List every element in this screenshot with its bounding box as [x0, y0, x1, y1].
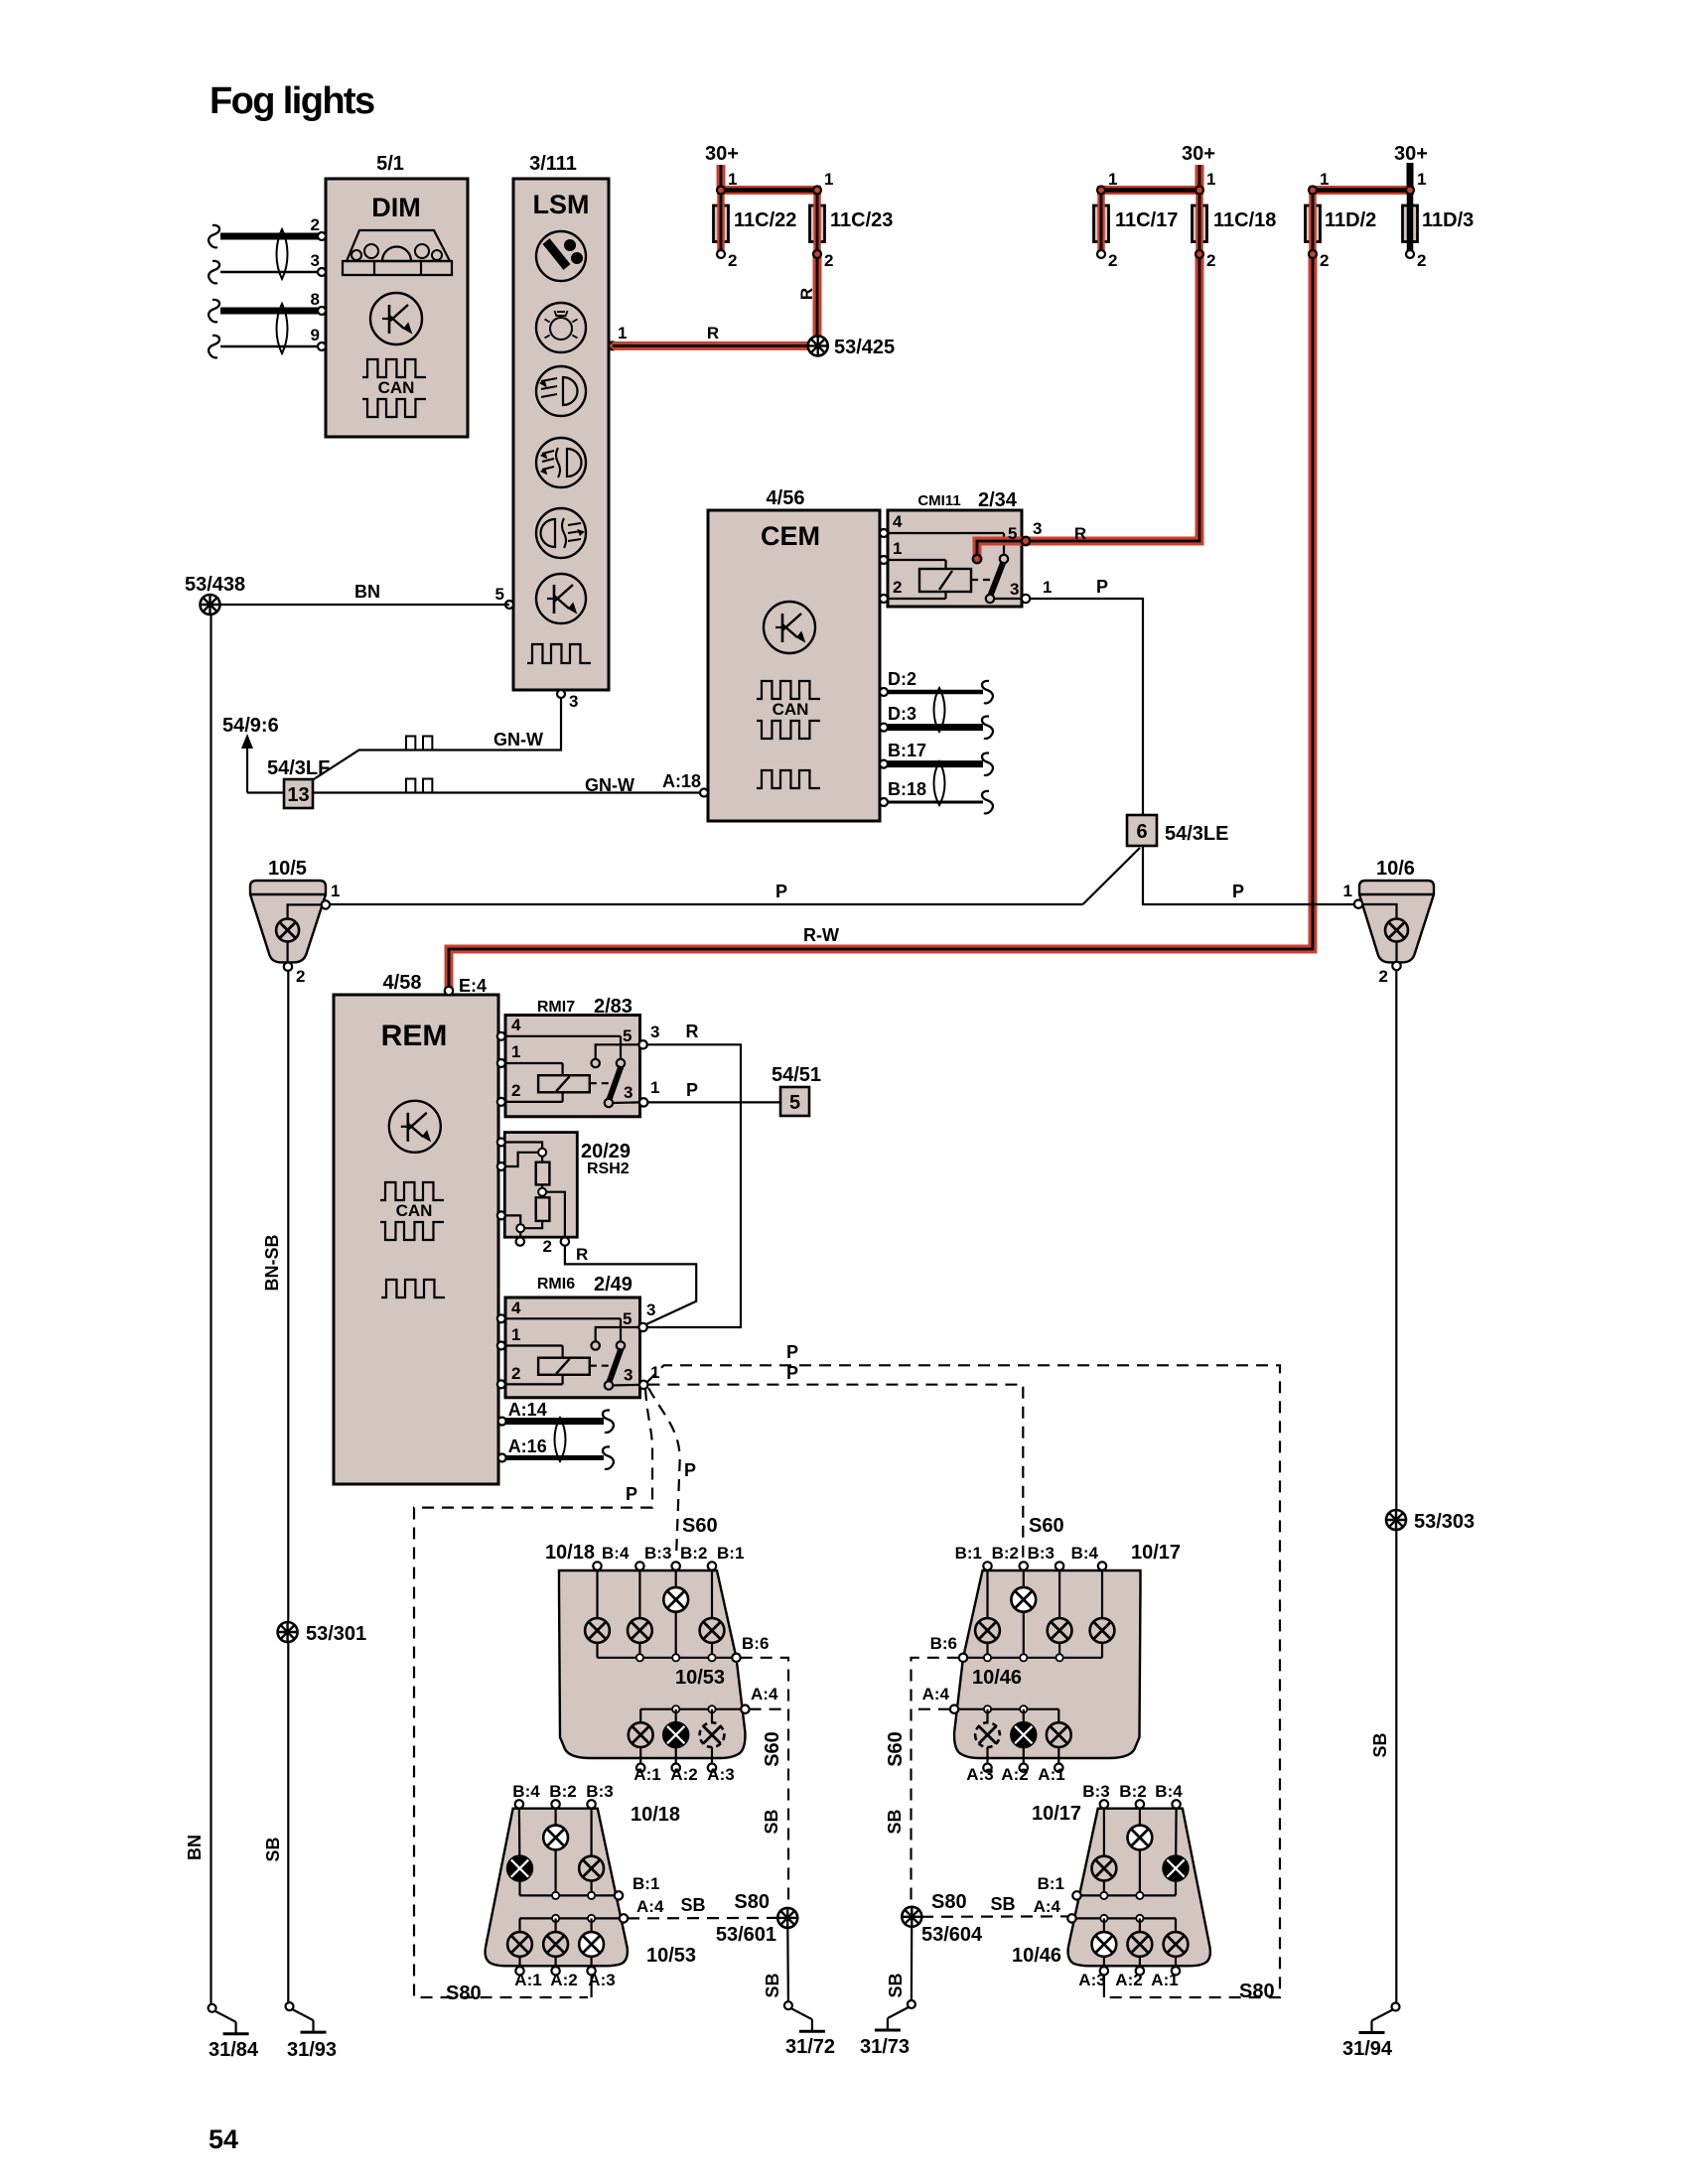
svg-text:11D/3: 11D/3 — [1422, 209, 1474, 231]
fuse 11C/23 — [810, 205, 825, 242]
svg-text:S80: S80 — [931, 1891, 967, 1913]
wire SB splice 53/604 to ground 31/73 — [911, 1926, 913, 2000]
relay 2/49 RMI6 — [497, 1274, 640, 1398]
svg-text:10/6: 10/6 — [1376, 858, 1415, 880]
svg-text:10/5: 10/5 — [268, 858, 307, 880]
relay 2/34 CMI11 — [880, 489, 1026, 607]
wire DIM pin 9 (twisted) — [220, 345, 318, 347]
cluster 10/18 S80 pin A:2 — [551, 1967, 559, 1975]
cluster 10/18 S60 pin B:1 — [708, 1562, 716, 1570]
splice 53/604 — [902, 1907, 921, 1927]
svg-text:B:3: B:3 — [644, 1544, 671, 1563]
twisted pair symbol D:2-D:3 — [934, 688, 945, 732]
relay 2/83 RMI7 — [497, 996, 640, 1117]
REM pin E:4 — [445, 987, 453, 995]
wire P 54/3LE to lamp 10/6 — [1143, 846, 1353, 904]
svg-text:SB: SB — [763, 1973, 782, 1997]
svg-text:CAN: CAN — [773, 700, 809, 719]
svg-text:B:17: B:17 — [888, 741, 926, 760]
RSH2 pins on REM edge — [497, 1139, 505, 1147]
svg-text:B:3: B:3 — [1028, 1544, 1055, 1563]
svg-text:B:4: B:4 — [512, 1782, 540, 1801]
wire DIM pin 2 (twisted) — [220, 233, 318, 240]
svg-text:S60: S60 — [1029, 1515, 1064, 1537]
cluster 10/18 S80 pin B:1 — [615, 1891, 623, 1899]
svg-text:1: 1 — [824, 170, 833, 189]
svg-text:8: 8 — [311, 290, 320, 309]
svg-text:4/56: 4/56 — [767, 487, 805, 509]
svg-text:S80: S80 — [1239, 1980, 1275, 2002]
svg-text:RMI6: RMI6 — [537, 1276, 575, 1293]
svg-text:1: 1 — [331, 882, 340, 900]
svg-text:5: 5 — [623, 1309, 632, 1328]
svg-text:5: 5 — [789, 1092, 800, 1114]
svg-text:SB: SB — [886, 1973, 906, 1997]
resistor module 20/29 RSH2 — [504, 1133, 631, 1238]
RSH2 pin 2 — [561, 1237, 569, 1245]
svg-text:4/58: 4/58 — [383, 972, 422, 994]
svg-text:11C/18: 11C/18 — [1213, 209, 1276, 231]
cluster 10/18 S60 pin A:2 — [672, 1764, 680, 1772]
svg-text:4: 4 — [511, 1016, 521, 1034]
svg-text:11C/22: 11C/22 — [734, 209, 796, 231]
arrow to 54/9:6 — [247, 791, 284, 793]
svg-text:11D/2: 11D/2 — [1325, 209, 1376, 231]
svg-text:2: 2 — [1206, 251, 1215, 270]
svg-text:2: 2 — [1320, 251, 1329, 270]
wire fuse link 11C/17-11C/18 pin1 — [1097, 186, 1203, 195]
svg-text:A:4: A:4 — [1034, 1897, 1061, 1916]
relay 2/49 pin 1 (bottom) — [639, 1381, 647, 1389]
svg-text:A:14: A:14 — [508, 1400, 547, 1420]
svg-text:P: P — [626, 1484, 637, 1504]
svg-text:3: 3 — [624, 1083, 633, 1102]
svg-text:10/46: 10/46 — [1012, 1945, 1061, 1967]
svg-text:B:2: B:2 — [680, 1544, 707, 1563]
fuse 11D/3 — [1403, 205, 1418, 242]
wire R splice 53/425 to LSM pin 1 — [613, 341, 817, 350]
svg-text:B:2: B:2 — [549, 1782, 576, 1801]
wire R RSH2 pin 2 to relay 2/49 pin 3 — [565, 1246, 696, 1324]
relay 2/34 pin 3 (top) — [1022, 537, 1030, 545]
svg-text:54: 54 — [209, 2124, 238, 2154]
lamp cluster 10/18 10/53 (S80) — [486, 1809, 628, 1967]
svg-text:R: R — [1074, 524, 1086, 543]
svg-text:DIM: DIM — [371, 193, 421, 222]
svg-text:A:2: A:2 — [1115, 1971, 1142, 1989]
CEM pin B:17 wire — [880, 760, 888, 768]
REM pin A:14 wire — [498, 1418, 506, 1426]
twisted pair symbol A:14-A:16 — [555, 1418, 566, 1461]
svg-text:SB: SB — [762, 1809, 781, 1834]
svg-text:10/53: 10/53 — [646, 1945, 696, 1967]
svg-text:10/17: 10/17 — [1032, 1803, 1081, 1825]
lamp 10/6 pin 1 — [1354, 900, 1362, 908]
wire SB lamp 10/6 pin 2 down to ground 31/94 — [1395, 970, 1397, 2003]
cluster 10/18 S60 pin A:4 — [741, 1706, 749, 1713]
wire SB splice 53/601 to ground 31/72 — [786, 1928, 789, 2002]
svg-text:10/53: 10/53 — [675, 1667, 725, 1689]
svg-text:53/438: 53/438 — [185, 574, 245, 596]
dashed wire P (S80 right) from relay 2/49 — [647, 1365, 1280, 1997]
svg-text:B:2: B:2 — [992, 1544, 1019, 1563]
svg-text:1: 1 — [511, 1042, 520, 1061]
lamp 10/6 — [1359, 881, 1434, 962]
svg-text:B:18: B:18 — [888, 779, 926, 799]
svg-text:GN-W: GN-W — [585, 775, 634, 795]
svg-text:2: 2 — [893, 578, 902, 597]
svg-text:1: 1 — [1343, 882, 1352, 900]
wire GN-W to CEM A:18 — [313, 791, 700, 793]
svg-text:SB: SB — [1370, 1732, 1390, 1757]
twisted pair symbol pins 8-9 — [277, 304, 288, 353]
wire R relay 2/83 to relay 2/49 pin 3 — [646, 1044, 741, 1327]
svg-text:B:1: B:1 — [717, 1544, 744, 1563]
svg-text:1: 1 — [1043, 578, 1052, 597]
svg-text:SB: SB — [263, 1837, 283, 1861]
dashed wire SB splice 53/604 to cluster 10/17 S80 A:4 — [921, 1915, 1072, 1918]
svg-text:B:1: B:1 — [955, 1544, 982, 1563]
dashed wire SB B:6/A:4 rail (right S60) — [912, 1658, 959, 1907]
svg-text:53/301: 53/301 — [306, 1623, 366, 1645]
ground 31/94 — [1392, 2003, 1400, 2011]
wire GN-W LSM pin 3 — [313, 698, 561, 780]
svg-text:30+: 30+ — [705, 143, 739, 165]
splice 53/303 — [1386, 1510, 1406, 1530]
cluster 10/18 S60 pin B:6 — [732, 1654, 740, 1662]
fuse 11D/2 — [1306, 205, 1321, 242]
svg-text:6: 6 — [1136, 821, 1147, 843]
DIM pin 9 — [318, 342, 326, 350]
cluster 10/18 S60 pin A:3 — [708, 1764, 716, 1772]
connector 54/51 pin 5 — [780, 1087, 809, 1116]
cluster 10/18 S60 pin A:1 — [636, 1764, 644, 1772]
svg-text:A:1: A:1 — [1038, 1765, 1064, 1784]
svg-text:P: P — [786, 1342, 798, 1362]
svg-text:4: 4 — [893, 512, 903, 531]
splice 53/601 — [777, 1908, 797, 1928]
svg-text:3: 3 — [624, 1366, 633, 1385]
CEM pin D:3 wire — [880, 724, 888, 732]
svg-text:R: R — [686, 1022, 699, 1041]
wire R fuse 11C/23 to splice 53/425 — [813, 254, 822, 345]
svg-text:1: 1 — [1417, 170, 1426, 189]
svg-text:A:1: A:1 — [1151, 1971, 1178, 1989]
wire P relay 2/34 to connector 54/3LE — [1030, 599, 1143, 815]
svg-text:2: 2 — [1417, 251, 1426, 270]
svg-text:S80: S80 — [446, 1982, 482, 2004]
svg-text:30+: 30+ — [1394, 143, 1428, 165]
wire R-W fuse 11D/2 to REM E:4 — [449, 254, 1313, 993]
svg-text:2: 2 — [511, 1364, 520, 1383]
svg-text:RMI7: RMI7 — [537, 999, 575, 1016]
svg-text:2/83: 2/83 — [594, 996, 633, 1018]
svg-text:53/425: 53/425 — [834, 337, 895, 358]
svg-text:S60: S60 — [885, 1731, 907, 1767]
wire fuse link 11D/2-11D/3 pin1 — [1309, 186, 1414, 195]
lamp cluster 10/18 10/53 (S60) — [559, 1570, 745, 1764]
cluster 10/18 S60 pin B:4 — [593, 1562, 601, 1570]
fuse 11C/18 — [1193, 205, 1207, 242]
svg-text:2: 2 — [1108, 251, 1117, 270]
DIM pin 8 — [318, 307, 326, 315]
twisted pair symbol pins 2-3 — [277, 229, 288, 279]
svg-text:A:4: A:4 — [636, 1897, 664, 1916]
svg-text:2: 2 — [728, 251, 737, 270]
svg-text:SB: SB — [680, 1895, 705, 1915]
wire cluster 10/18 S80 A:3 to S80 rail — [590, 1976, 592, 1998]
svg-text:A:1: A:1 — [514, 1971, 541, 1989]
svg-text:A:1: A:1 — [633, 1765, 660, 1784]
twisted pair symbol B:17-B:18 — [934, 761, 945, 805]
splice 53/425 — [808, 336, 828, 355]
svg-text:31/73: 31/73 — [860, 2036, 910, 2058]
REM pin A:16 wire — [498, 1454, 506, 1462]
svg-text:P: P — [775, 882, 787, 901]
svg-text:30+: 30+ — [1182, 143, 1215, 165]
svg-text:54/9:6: 54/9:6 — [222, 715, 279, 737]
svg-text:31/93: 31/93 — [287, 2039, 337, 2061]
ground 31/84 — [209, 2004, 216, 2012]
svg-text:D:2: D:2 — [888, 669, 916, 689]
svg-text:SB: SB — [990, 1894, 1015, 1914]
svg-text:2/49: 2/49 — [594, 1274, 633, 1296]
svg-text:3: 3 — [311, 251, 320, 270]
svg-text:B:2: B:2 — [1119, 1782, 1146, 1801]
svg-text:A:3: A:3 — [707, 1765, 734, 1784]
CEM pin D:2 wire — [880, 688, 888, 696]
svg-text:R: R — [576, 1245, 588, 1264]
connector 54/3LF pin 13 — [284, 779, 313, 808]
module REM 4/58 — [334, 972, 498, 1484]
svg-text:E:4: E:4 — [459, 976, 487, 996]
svg-text:5: 5 — [495, 585, 504, 604]
svg-text:31/72: 31/72 — [785, 2036, 835, 2058]
dashed wire P (S60 left) from relay 2/49 — [648, 1388, 680, 1558]
svg-text:R-W: R-W — [803, 925, 839, 945]
wire P relay 2/83 to connector 54/51 — [647, 1101, 780, 1103]
svg-text:P: P — [1232, 882, 1244, 901]
svg-text:1: 1 — [1108, 170, 1117, 189]
svg-text:2: 2 — [311, 215, 320, 234]
relay 2/49 pin 3 (top) — [638, 1323, 646, 1331]
svg-text:54/51: 54/51 — [772, 1064, 821, 1086]
wire R fuse 11C/18 to relay 2/34 — [1029, 254, 1199, 541]
svg-text:LSM: LSM — [533, 190, 590, 219]
svg-text:S60: S60 — [682, 1515, 718, 1537]
lamp 10/5 pin 2 — [284, 963, 292, 971]
svg-text:P: P — [686, 1080, 698, 1100]
lamp cluster 10/17 10/46 (S80) — [1067, 1800, 1210, 1997]
svg-text:A:4: A:4 — [751, 1685, 778, 1704]
wire DIM pin 3 (twisted) — [220, 271, 318, 273]
svg-text:S80: S80 — [734, 1891, 770, 1913]
svg-text:31/94: 31/94 — [1342, 2038, 1393, 2060]
svg-text:SB: SB — [885, 1809, 905, 1834]
svg-text:RSH2: RSH2 — [587, 1160, 630, 1177]
cluster 10/18 S80 pin A:4 — [620, 1914, 628, 1922]
svg-text:B:4: B:4 — [1155, 1782, 1183, 1801]
svg-text:3: 3 — [650, 1023, 659, 1041]
svg-text:1: 1 — [650, 1363, 659, 1382]
wire BN down from 53/438 to ground 31/84 — [210, 614, 211, 2004]
wire DIM pin 8 (twisted) — [220, 308, 318, 315]
lamp 10/5 pin 1 — [322, 900, 330, 908]
svg-text:53/601: 53/601 — [716, 1924, 776, 1946]
svg-text:B:6: B:6 — [930, 1634, 957, 1653]
svg-text:2/34: 2/34 — [978, 489, 1018, 511]
wire BN splice 53/438 to LSM pin 5 — [211, 604, 510, 606]
cluster 10/18 S80 pin A:1 — [515, 1967, 523, 1975]
svg-text:B:1: B:1 — [1038, 1874, 1064, 1893]
cluster 10/18 S80 pin B:2 — [551, 1800, 559, 1808]
wire BN-SB lamp 10/5 pin 2 down — [287, 971, 289, 2002]
svg-text:D:3: D:3 — [888, 704, 916, 724]
svg-text:1: 1 — [1206, 170, 1215, 189]
dashed wire P (S60 right) from relay 2/49 — [647, 1385, 1023, 1558]
svg-text:B:6: B:6 — [742, 1634, 769, 1653]
DIM pin 3 — [318, 268, 326, 276]
DIM pin 2 — [318, 232, 326, 240]
svg-text:53/303: 53/303 — [1414, 1511, 1475, 1533]
svg-text:R: R — [797, 288, 816, 300]
splice 53/438 — [201, 595, 220, 614]
svg-text:A:3: A:3 — [1078, 1971, 1105, 1989]
svg-text:54/3LF: 54/3LF — [267, 757, 330, 779]
svg-text:B:4: B:4 — [602, 1544, 630, 1563]
svg-text:B:3: B:3 — [586, 1782, 613, 1801]
svg-text:2: 2 — [1379, 967, 1388, 986]
svg-text:Fog lights: Fog lights — [210, 80, 374, 122]
svg-text:5: 5 — [623, 1026, 632, 1045]
module LSM 3/111 — [513, 153, 609, 690]
dashed wire P (S80 left) from relay 2/49 — [414, 1389, 652, 1997]
svg-text:3: 3 — [646, 1300, 655, 1319]
svg-text:31/84: 31/84 — [209, 2039, 259, 2061]
svg-text:54/3LE: 54/3LE — [1165, 823, 1228, 845]
svg-text:A:18: A:18 — [662, 771, 701, 791]
svg-text:1: 1 — [893, 539, 902, 558]
svg-text:R: R — [707, 324, 719, 342]
cluster 10/18 S80 pin B:4 — [515, 1800, 523, 1808]
cluster 10/18 S80 pin A:3 — [587, 1967, 595, 1975]
CEM pin A:18 — [700, 789, 708, 797]
svg-text:P: P — [786, 1363, 798, 1383]
svg-text:4: 4 — [511, 1298, 521, 1317]
svg-text:GN-W: GN-W — [493, 730, 543, 750]
svg-text:CMI11: CMI11 — [917, 492, 960, 509]
dashed wire SB B:6/A:4 rail (left S60) — [741, 1658, 788, 1909]
svg-text:B:3: B:3 — [1082, 1782, 1109, 1801]
svg-text:1: 1 — [1320, 170, 1329, 189]
relay 2/83 pin 3 (top) — [638, 1040, 646, 1048]
cluster 10/18 S60 pin B:3 — [635, 1562, 643, 1570]
RSH2 bottom pin (nc) — [516, 1237, 524, 1245]
wire fuse link 11C/22-11C/23 pin1 — [717, 186, 821, 195]
fuse 11C/22 — [714, 205, 729, 242]
svg-text:10/18: 10/18 — [545, 1542, 595, 1564]
svg-text:1: 1 — [650, 1078, 659, 1097]
relay 2/83 pin 1 (bottom) — [639, 1098, 647, 1106]
svg-text:3: 3 — [1010, 580, 1019, 599]
svg-text:13: 13 — [287, 784, 309, 806]
svg-text:3: 3 — [569, 692, 578, 711]
svg-text:A:16: A:16 — [508, 1436, 547, 1456]
svg-text:BN: BN — [185, 1835, 205, 1860]
wire P 54/3LE branch to lamp 10/5 — [1083, 848, 1141, 904]
svg-text:1: 1 — [618, 324, 627, 342]
connector 54/3LE pin 6 — [1127, 815, 1157, 846]
svg-text:10/18: 10/18 — [631, 1804, 680, 1826]
lamp cluster 10/17 10/46 (S60) — [950, 1562, 1141, 1772]
svg-text:CAN: CAN — [396, 1201, 433, 1220]
module CEM 4/56 — [708, 487, 880, 821]
svg-text:A:3: A:3 — [966, 1765, 993, 1784]
splice 53/301 — [278, 1622, 298, 1642]
svg-text:20/29: 20/29 — [581, 1141, 631, 1162]
svg-text:9: 9 — [311, 326, 320, 344]
svg-text:2: 2 — [824, 251, 833, 270]
svg-text:B:1: B:1 — [633, 1874, 659, 1893]
svg-text:1: 1 — [511, 1325, 520, 1344]
svg-text:P: P — [684, 1460, 696, 1480]
svg-text:2: 2 — [296, 967, 305, 986]
svg-text:A:2: A:2 — [550, 1971, 577, 1989]
svg-text:A:2: A:2 — [1001, 1765, 1028, 1784]
svg-text:5/1: 5/1 — [376, 153, 404, 175]
ground 31/93 — [286, 2002, 294, 2010]
svg-text:2: 2 — [511, 1081, 520, 1100]
CEM pin B:18 wire — [880, 798, 888, 806]
module DIM 5/1 — [326, 153, 468, 437]
lamp 10/5 — [250, 881, 326, 962]
svg-text:B:4: B:4 — [1071, 1544, 1099, 1563]
svg-text:10/46: 10/46 — [972, 1667, 1022, 1689]
svg-text:CAN: CAN — [378, 378, 415, 397]
svg-text:P: P — [1096, 577, 1108, 597]
svg-text:11C/23: 11C/23 — [830, 209, 893, 231]
dashed wire SB cluster 10/18 S80 A:4 to splice 53/601 — [628, 1917, 777, 1920]
svg-text:2: 2 — [543, 1237, 552, 1256]
ground 31/72 — [784, 2001, 792, 2009]
relay 2/34 pin 1 (bottom) — [1022, 595, 1030, 603]
svg-text:A:2: A:2 — [670, 1765, 697, 1784]
LSM pin 1 — [609, 341, 617, 349]
svg-text:REM: REM — [381, 1020, 448, 1052]
svg-text:BN: BN — [354, 582, 380, 602]
LSM pin 5 — [505, 601, 513, 609]
svg-text:S60: S60 — [762, 1731, 783, 1767]
svg-text:5: 5 — [1008, 524, 1017, 543]
svg-text:3: 3 — [1033, 519, 1042, 538]
cluster 10/18 S60 pin B:2 — [672, 1562, 680, 1570]
svg-text:BN-SB: BN-SB — [262, 1235, 282, 1292]
svg-text:53/604: 53/604 — [921, 1924, 983, 1946]
fuse 11C/17 — [1094, 205, 1109, 242]
svg-text:1: 1 — [728, 170, 737, 189]
svg-text:CEM: CEM — [761, 521, 820, 551]
lamp 10/6 pin 2 — [1392, 962, 1400, 970]
svg-text:A:4: A:4 — [922, 1685, 950, 1704]
LSM pin 3 — [557, 690, 565, 698]
svg-text:3/111: 3/111 — [529, 153, 577, 175]
cluster 10/18 S80 pin B:3 — [587, 1800, 595, 1808]
svg-text:11C/17: 11C/17 — [1115, 209, 1178, 231]
svg-text:10/17: 10/17 — [1131, 1542, 1181, 1564]
ground 31/73 — [908, 2000, 915, 2008]
